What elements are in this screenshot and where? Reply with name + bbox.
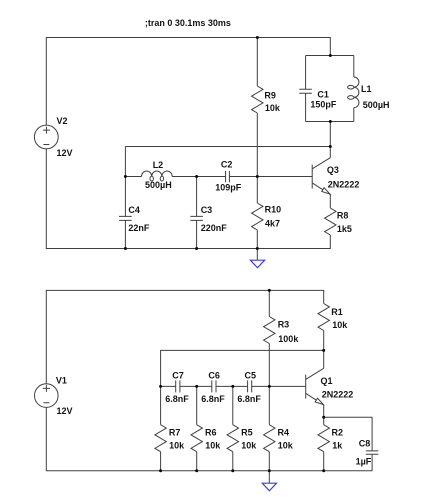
- svg-text:10k: 10k: [169, 441, 185, 451]
- svg-text:150pF: 150pF: [310, 100, 337, 110]
- svg-text:6.8nF: 6.8nF: [237, 394, 261, 404]
- svg-text:12V: 12V: [57, 148, 73, 158]
- svg-text:C8: C8: [359, 438, 371, 448]
- svg-text:C3: C3: [201, 205, 213, 215]
- svg-text:R3: R3: [278, 320, 290, 330]
- svg-text:4k7: 4k7: [265, 218, 280, 228]
- svg-text:C6: C6: [208, 370, 220, 380]
- svg-text:R5: R5: [241, 428, 253, 438]
- svg-text:22nF: 22nF: [128, 223, 150, 233]
- svg-text:R8: R8: [337, 211, 349, 221]
- svg-text:R1: R1: [331, 307, 343, 317]
- svg-text:C2: C2: [221, 159, 233, 169]
- svg-text:109pF: 109pF: [215, 182, 242, 192]
- svg-text:2N2222: 2N2222: [328, 179, 360, 189]
- svg-text:R2: R2: [332, 428, 344, 438]
- svg-text:6.8nF: 6.8nF: [201, 394, 225, 404]
- svg-text:10k: 10k: [265, 103, 281, 113]
- svg-text:10k: 10k: [205, 441, 221, 451]
- svg-text:500µH: 500µH: [145, 180, 172, 190]
- svg-text:;tran 0 30.1ms 30ms: ;tran 0 30.1ms 30ms: [145, 18, 231, 28]
- svg-text:1µF: 1µF: [356, 457, 372, 467]
- svg-text:C5: C5: [245, 370, 257, 380]
- svg-text:L1: L1: [361, 84, 372, 94]
- svg-text:V1: V1: [56, 376, 67, 386]
- svg-text:500µH: 500µH: [363, 100, 390, 110]
- svg-text:1k5: 1k5: [337, 224, 352, 234]
- svg-text:2N2222: 2N2222: [322, 390, 354, 400]
- svg-text:C4: C4: [128, 205, 140, 215]
- svg-text:C7: C7: [172, 370, 184, 380]
- svg-text:R4: R4: [278, 428, 290, 438]
- svg-text:R10: R10: [265, 205, 282, 215]
- svg-text:12V: 12V: [57, 406, 73, 416]
- svg-text:L2: L2: [153, 160, 164, 170]
- svg-text:220nF: 220nF: [201, 223, 228, 233]
- svg-text:Q1: Q1: [321, 376, 333, 386]
- svg-text:R7: R7: [169, 428, 181, 438]
- svg-text:10k: 10k: [241, 441, 257, 451]
- svg-text:10k: 10k: [278, 441, 294, 451]
- svg-text:R6: R6: [205, 428, 217, 438]
- svg-text:C1: C1: [317, 90, 329, 100]
- svg-text:Q3: Q3: [327, 165, 339, 175]
- svg-text:V2: V2: [57, 116, 68, 126]
- svg-text:1k: 1k: [332, 441, 343, 451]
- svg-text:10k: 10k: [332, 320, 348, 330]
- svg-text:6.8nF: 6.8nF: [165, 394, 189, 404]
- svg-text:R9: R9: [264, 91, 276, 101]
- svg-text:100k: 100k: [278, 334, 299, 344]
